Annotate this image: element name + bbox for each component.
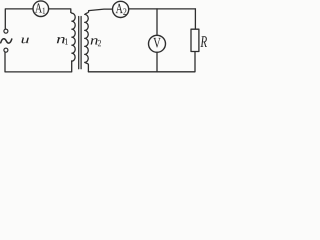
wire: right edge down to resistor	[194, 9, 196, 29]
transformer secondary winding n2	[85, 11, 89, 72]
transformer primary winding n1	[71, 12, 75, 61]
label n1	[57, 37, 68, 45]
terminal (upper)	[4, 29, 8, 33]
terminal (lower)	[4, 48, 8, 52]
voltmeter branch bottom wire	[156, 52, 158, 71]
wire: resistor bottom to bottom-right corner and bottom wire	[88, 52, 195, 72]
label n2	[91, 38, 101, 46]
wire: top-left L from upper terminal to ammeter A1	[5, 9, 33, 29]
AC source tilde symbol	[1, 39, 12, 43]
voltmeter branch top wire	[156, 9, 158, 35]
voltmeter V	[149, 35, 166, 52]
wire: A1 to primary coil top	[49, 9, 71, 13]
ammeter A2	[113, 1, 129, 17]
ammeter A1	[33, 1, 49, 17]
wire: secondary top to ammeter A2	[89, 9, 113, 10]
resistor R box	[191, 29, 199, 51]
wire: primary coil bottom stub to bottom-left wire and lower terminal	[5, 52, 72, 72]
label u	[22, 38, 29, 44]
transformer core	[78, 17, 80, 69]
label R	[200, 36, 207, 47]
wire: A2 to top-right corner	[129, 8, 196, 10]
